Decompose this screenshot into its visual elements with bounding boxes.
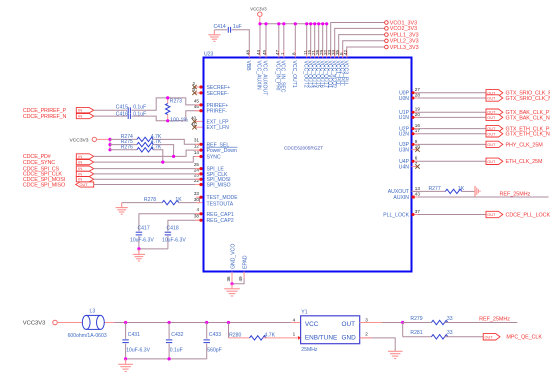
svg-text:27: 27 (415, 87, 421, 92)
svg-text:VCC3_PLL: VCC3_PLL (342, 61, 348, 87)
svg-text:23: 23 (194, 173, 200, 178)
junction R276/SYNC (161, 161, 164, 164)
svg-text:41: 41 (191, 121, 197, 126)
svg-text:42: 42 (343, 49, 348, 55)
svg-text:R281: R281 (410, 330, 422, 336)
pin numbers left column (194, 98, 200, 218)
svg-text:560pF: 560pF (207, 348, 221, 354)
port OUT GTX_SRIO_CLK_P (486, 90, 550, 97)
port IN CDCE_SPI_MOSI (76, 177, 93, 182)
svg-text:OUT: OUT (487, 97, 496, 101)
junction GND_VCO/EPAD (230, 282, 233, 285)
pin SECREF- pin 3 no-connect stub (192, 87, 202, 95)
port OUT GTX_BAK_CLK_N (486, 114, 550, 121)
svg-text:IN: IN (78, 167, 82, 171)
test point probe (sideways ground) (475, 186, 480, 197)
svg-text:VPLL2_3V3: VPLL2_3V3 (390, 39, 419, 45)
svg-text:R279: R279 (410, 316, 422, 322)
wire VCC_VCO1 to VCO1_3V3 staircase (331, 23, 385, 58)
wire stub VCC_IN_PRI pin 47 (278, 24, 280, 58)
port OUT CDCE_SPI_MISO (points left) (76, 182, 94, 187)
svg-text:U0N: U0N (399, 96, 410, 102)
power flag VCC3V3 (pull-ups) (70, 137, 111, 143)
junction dots pull-up feed (108, 138, 111, 152)
svg-text:3: 3 (365, 317, 368, 322)
svg-text:40: 40 (191, 116, 197, 121)
svg-text:TEST_MODE: TEST_MODE (207, 195, 239, 201)
op-amp U23 IC body CDCE62005RGZT (204, 52, 412, 272)
wire U1P pin 19 to OUT (412, 111, 487, 114)
svg-text:C431: C431 (128, 332, 140, 338)
port IN CDCE_PRIREF_N (76, 114, 93, 119)
wire stub VCC_OUT7 pin 32 (326, 24, 328, 58)
wire U1N pin 20 to OUT (412, 116, 487, 119)
svg-text:VCC_AUXIN: VCC_AUXIN (256, 61, 262, 90)
wire PRIREF_N to C416 (94, 115, 128, 117)
svg-text:U4N: U4N (399, 164, 410, 170)
wire stub VCC_AUXIN pin 44 (259, 24, 261, 58)
capacitor C418 10uF-6.3V (162, 219, 203, 249)
svg-text:44: 44 (256, 49, 261, 55)
wire C414 to VBB pin 48 (232, 30, 250, 58)
junction dots ground bus (124, 357, 171, 360)
svg-text:VCC_IN_SEC: VCC_IN_SEC (279, 61, 285, 93)
resistor R276 4.7K (110, 144, 162, 152)
overbar Power_Down (active low) (207, 146, 238, 148)
svg-text:R280: R280 (229, 332, 241, 338)
node VCO2_3V3 (385, 26, 417, 32)
oscillator Y1 25MHz (293, 309, 369, 353)
wire CDCE_SYNC to pin 14 SYNC (94, 157, 203, 163)
svg-text:Y1: Y1 (301, 309, 307, 315)
wire CDCE_SPI_CS to pin 25 SPI_LE (94, 168, 203, 170)
wire stub VCC_OUT3 pin 15 (310, 24, 312, 58)
port OUT CDCE_PLL_LOCK (486, 211, 550, 218)
capacitor C432 0.1uF (166, 323, 184, 359)
ground (C431/C432/C433) (118, 359, 133, 372)
svg-text:13: 13 (415, 186, 421, 191)
wire U0P pin 27 to OUT (412, 91, 487, 94)
wire VCC3V3 top bus (260, 23, 327, 25)
wire PRIREF_P to C415 (94, 109, 128, 111)
svg-text:PRIREF-: PRIREF- (207, 109, 228, 115)
resistor R273 100-1% vertical (166, 96, 189, 123)
svg-text:C417: C417 (138, 226, 150, 232)
svg-text:19: 19 (415, 107, 421, 112)
svg-text:22: 22 (194, 178, 200, 183)
svg-text:C432: C432 (171, 332, 183, 338)
wire stub VCC_OUT2 pin 11 (306, 24, 308, 58)
svg-text:ENB/TUNE: ENB/TUNE (305, 335, 337, 342)
svg-text:2: 2 (365, 331, 368, 336)
port IN CDCE_SPI_CS (76, 166, 93, 171)
svg-text:4: 4 (293, 317, 296, 322)
svg-text:4: 4 (196, 207, 199, 212)
resistor R275 4.7K (110, 139, 162, 147)
wire VCC2_PLL to VPLL2_3V3 staircase (343, 41, 385, 58)
svg-text:MPC_QE_CLK: MPC_QE_CLK (506, 335, 542, 341)
pin EXT_LFP pin 40 no-connect stub (191, 116, 203, 124)
port IN CDCE_PD# (76, 154, 93, 159)
svg-text:OUT: OUT (487, 116, 496, 120)
wire U2P pin 16 to OUT (412, 127, 487, 130)
wire PLL_LOCK pin 37 to OUT (412, 213, 487, 216)
resistor R280 4.7K (229, 323, 276, 341)
svg-text:14: 14 (194, 150, 200, 155)
port OUT GTX_ETH_CLK_N (486, 131, 550, 138)
svg-text:600ohm/1A-0603: 600ohm/1A-0603 (68, 333, 107, 339)
svg-text:AUXIN: AUXIN (393, 195, 409, 201)
svg-text:0.1uF: 0.1uF (170, 348, 183, 354)
junction dots on VCC3V3 bus (258, 22, 328, 25)
capacitor C431 10uF-6.3V (122, 323, 150, 359)
svg-text:25: 25 (194, 162, 200, 167)
ground (Y1 GND) (388, 351, 403, 358)
svg-text:VCC: VCC (305, 321, 319, 328)
pin stubs and dots SPI pins 31 12 14 25 24 23 22 (195, 143, 203, 186)
svg-text:EXT_LFN: EXT_LFN (207, 125, 230, 131)
port IN CDCE_SYNC (76, 160, 93, 165)
svg-text:GTX_ETH_CLK_N: GTX_ETH_CLK_N (506, 132, 550, 138)
wire R277 to test point (462, 190, 475, 192)
svg-text:REG_CAP2: REG_CAP2 (207, 218, 234, 224)
svg-text:OUT: OUT (487, 132, 496, 136)
svg-text:CDCE62005RGZT: CDCE62005RGZT (284, 145, 323, 150)
wire stub VCC_OUT4 pin 21 (314, 24, 316, 58)
svg-text:CDCE_SYNC: CDCE_SYNC (23, 160, 55, 166)
svg-text:GND_VCO: GND_VCO (230, 244, 236, 269)
svg-text:REF_25MHz: REF_25MHz (479, 316, 510, 322)
svg-text:45: 45 (262, 49, 267, 55)
svg-text:10uF-6.3V: 10uF-6.3V (130, 238, 154, 244)
wire C416 to pin 46 (jog down) (132, 111, 203, 121)
svg-text:R278: R278 (144, 197, 156, 203)
svg-text:R273: R273 (170, 99, 182, 105)
svg-text:33: 33 (447, 330, 453, 336)
svg-text:U2N: U2N (399, 132, 410, 138)
wire pull-up feed vertical (109, 139, 111, 149)
svg-text:OUT: OUT (80, 183, 89, 187)
pin EXT_LFN pin 41 no-connect stub (191, 121, 203, 129)
resistor R279 33 (403, 316, 453, 325)
svg-text:C415: C415 (116, 105, 128, 111)
svg-text:U1N: U1N (399, 115, 410, 121)
svg-text:CDCE_SPI_MISO: CDCE_SPI_MISO (23, 182, 65, 188)
svg-text:VCO2_3V3: VCO2_3V3 (390, 26, 417, 32)
wire R280 to Y1 ENB (263, 337, 301, 339)
wire stub VCC_OUT5 pin 26 (318, 24, 320, 58)
svg-text:Power_Down: Power_Down (207, 148, 237, 154)
svg-text:33: 33 (194, 191, 200, 196)
svg-text:1: 1 (280, 52, 285, 55)
svg-text:SECREF-: SECREF- (207, 91, 230, 97)
svg-text:L3: L3 (90, 309, 96, 315)
capacitor C414 1uF (214, 24, 242, 33)
svg-text:GND: GND (342, 335, 357, 342)
svg-text:REF_25MHz: REF_25MHz (500, 192, 531, 198)
pin stubs TEST_MODE 33 / TESTOUTA 30 (196, 196, 203, 203)
wire R281 to OUT port (445, 336, 484, 338)
svg-text:VBB: VBB (245, 61, 251, 72)
wire capacitor ground bus (126, 358, 207, 360)
wire R278 to pins 30/33 (179, 197, 203, 202)
capacitor C416 0.1uF (116, 112, 146, 119)
port IN CDCE_SPI_CLK (76, 171, 93, 176)
svg-text:VCC3V3: VCC3V3 (23, 321, 46, 327)
svg-text:3: 3 (193, 87, 196, 92)
svg-text:10uF-6.3V: 10uF-6.3V (126, 348, 150, 354)
svg-text:VCC_OUT1: VCC_OUT1 (291, 61, 297, 88)
resistor R281 33 (403, 323, 453, 339)
capacitor C433 560pF (204, 323, 222, 359)
svg-text:SPI_MISO: SPI_MISO (207, 182, 231, 188)
svg-text:SYNC: SYNC (207, 155, 221, 161)
svg-text:20: 20 (415, 112, 421, 117)
pin numbers top row (rotated) (245, 49, 347, 55)
svg-text:28: 28 (415, 93, 421, 98)
svg-text:IN: IN (78, 172, 82, 176)
svg-text:VPLL1_3V3: VPLL1_3V3 (390, 32, 419, 38)
resistor R278 1K (122, 197, 183, 205)
pin SECREF+ pin 2 no-connect stub (192, 81, 202, 89)
svg-text:31: 31 (194, 138, 200, 143)
port OUT MPC_QE_CLK (483, 334, 542, 341)
svg-text:IN: IN (78, 178, 82, 182)
wire R274 to pin 31 REF_SEL (153, 139, 202, 144)
svg-text:C416: C416 (116, 112, 128, 118)
svg-text:1uF: 1uF (233, 24, 242, 30)
wire stub VCC_OUT6 pin 29 (322, 24, 324, 58)
ground (C417/C418) (133, 249, 145, 261)
ground (C414) (208, 30, 220, 42)
svg-text:VCC_AUXOUT: VCC_AUXOUT (262, 61, 268, 96)
svg-text:IN: IN (78, 109, 82, 113)
wire stub VCC_OUT1 pin 8 (294, 24, 296, 58)
svg-text:CDCE_PRIREF_N: CDCE_PRIREF_N (23, 114, 67, 120)
pin numbers right column (415, 87, 421, 214)
svg-text:OUT: OUT (487, 213, 496, 217)
power flag VCC3V3 top (250, 7, 267, 24)
svg-text:C414: C414 (214, 24, 226, 30)
wire U3P pin 9 to OUT (412, 143, 487, 146)
wire U0N pin 28 to OUT (412, 97, 487, 100)
svg-text:PLL_LOCK: PLL_LOCK (383, 212, 409, 218)
svg-text:C433: C433 (209, 332, 221, 338)
port OUT GTX_BAK_CLK_P (486, 109, 550, 116)
svg-text:OUT: OUT (487, 160, 496, 164)
svg-text:VCC3V3: VCC3V3 (70, 137, 89, 143)
svg-text:49: 49 (238, 276, 243, 282)
port OUT ETH_CLK_25M (486, 158, 543, 165)
svg-text:TESTOUTA: TESTOUTA (207, 202, 234, 208)
port OUT GTX_ETH_CLK_P (486, 125, 550, 132)
capacitor C415 0.1uF (116, 105, 146, 113)
svg-text:2: 2 (193, 81, 196, 86)
wire main rail to Y1 VCC (126, 322, 301, 324)
node VCO1_3V3 (385, 20, 417, 26)
pin names left column (207, 85, 239, 224)
port OUT GTX_SRIO_CLK_N (486, 95, 550, 102)
wire stub VCC_IN_SEC pin 1 (283, 24, 285, 58)
capacitor C417 10uF-6.3V (130, 212, 203, 249)
inductor L3 600ohm/1A-0603 (68, 309, 126, 339)
wire VCC3_PLL to VPLL3_3V3 staircase (347, 47, 385, 58)
svg-text:IN: IN (78, 155, 82, 159)
svg-text:43: 43 (415, 191, 421, 196)
svg-text:R276: R276 (121, 144, 133, 150)
pin U3N pin 10 no-connect (412, 147, 420, 151)
pin EPAD pin 49 (bottom) (232, 255, 248, 284)
wire VCC_VCO2 to VCO2_3V3 staircase (335, 28, 385, 57)
svg-text:45: 45 (194, 98, 200, 103)
node VPLL3_3V3 (385, 45, 419, 51)
resistor R277 1K (AUXOUT) (412, 186, 465, 194)
ground (GND_VCO/EPAD) (224, 284, 240, 296)
junction R275/PD# (172, 155, 175, 158)
svg-text:VPLL3_3V3: VPLL3_3V3 (390, 45, 419, 51)
svg-text:8: 8 (291, 52, 296, 55)
wire R279 REF_25MHz (445, 322, 518, 324)
svg-text:100-1%: 100-1% (170, 118, 188, 124)
pin GND_VCO pin 36 (bottom) (226, 244, 237, 284)
svg-text:36: 36 (226, 276, 231, 282)
wire CDCE_SPI_MISO to pin 22 SPI_MISO (94, 184, 203, 186)
svg-text:U23: U23 (204, 52, 214, 58)
port IN CDCE_PRIREF_P (76, 108, 93, 113)
svg-text:24: 24 (194, 167, 200, 172)
svg-text:10uF-6.3V: 10uF-6.3V (162, 238, 186, 244)
node VPLL2_3V3 (385, 39, 419, 45)
wire Y1 OUT pin 3 (360, 321, 405, 324)
svg-text:CDCE_PLL_LOCK: CDCE_PLL_LOCK (506, 212, 550, 218)
svg-text:OUT: OUT (342, 321, 356, 328)
pin names top row (rotated, inside IC) (245, 61, 348, 96)
svg-text:PHY_CLK_25M: PHY_CLK_25M (506, 142, 544, 148)
svg-text:GTX_BAK_CLK_N: GTX_BAK_CLK_N (506, 115, 550, 121)
pin U4N pin 7 no-connect (412, 164, 420, 168)
pin stubs PRIREF 45 46 (195, 103, 203, 112)
node VPLL1_3V3 (385, 32, 419, 38)
svg-text:REG_CAP1: REG_CAP1 (207, 212, 234, 218)
wire U4P pin 6 to OUT (412, 160, 487, 163)
ground (R278) (116, 203, 128, 215)
wire stub VCC_AUXOUT pin 45 (265, 24, 267, 58)
svg-text:25MHz: 25MHz (301, 347, 318, 353)
wire U2N pin 17 to OUT (412, 132, 487, 135)
svg-text:1: 1 (293, 331, 296, 336)
wire R276 down to CDCE_SYNC net (153, 150, 162, 162)
svg-text:ETH_CLK_25M: ETH_CLK_25M (506, 159, 543, 165)
wire Y1 GND pin 2 to ground (360, 338, 396, 351)
wire CDCE_PD# to pin 12 Power_Down (94, 150, 203, 156)
svg-text:OUT: OUT (485, 335, 494, 339)
svg-text:R277: R277 (429, 186, 441, 192)
wire VCC1_PLL to VPLL1_3V3 staircase (339, 35, 385, 58)
svg-text:GTX_SRIO_CLK_N: GTX_SRIO_CLK_N (506, 96, 550, 102)
svg-text:48: 48 (245, 49, 250, 55)
svg-text:38: 38 (194, 214, 200, 219)
svg-text:C418: C418 (167, 226, 179, 232)
wire C418 bottom to C417 bottom (139, 248, 168, 250)
wire R275 down to CDCE_PD# net (153, 145, 173, 157)
svg-text:CDCE_PRIREF_P: CDCE_PRIREF_P (23, 108, 67, 114)
svg-text:EPAD: EPAD (242, 255, 248, 269)
wire CDCE_SPI_MOSI to pin 23 SPI_MOSI (94, 178, 203, 180)
svg-text:VCC3V3: VCC3V3 (250, 7, 267, 12)
svg-text:U3N: U3N (399, 147, 410, 153)
power flag VCC3V3 (oscillator) (23, 320, 83, 326)
pin names right column (383, 91, 409, 219)
svg-text:IN: IN (78, 115, 82, 119)
port OUT PHY_CLK_25M (486, 141, 543, 148)
svg-text:OUT: OUT (487, 143, 496, 147)
wire C415 to pin 45 (jog up) (132, 98, 203, 110)
wire CDCE_SPI_CLK to pin 24 SPI_CLK (94, 173, 203, 175)
svg-text:33: 33 (447, 316, 453, 322)
resistor R274 4.7K (110, 134, 162, 142)
svg-text:IN: IN (78, 161, 82, 165)
wire AUXIN pin 43 REF_25MHz (412, 196, 549, 199)
svg-text:37: 37 (415, 209, 421, 214)
junction dots rail (124, 321, 230, 324)
junction C417 ground (137, 247, 140, 250)
